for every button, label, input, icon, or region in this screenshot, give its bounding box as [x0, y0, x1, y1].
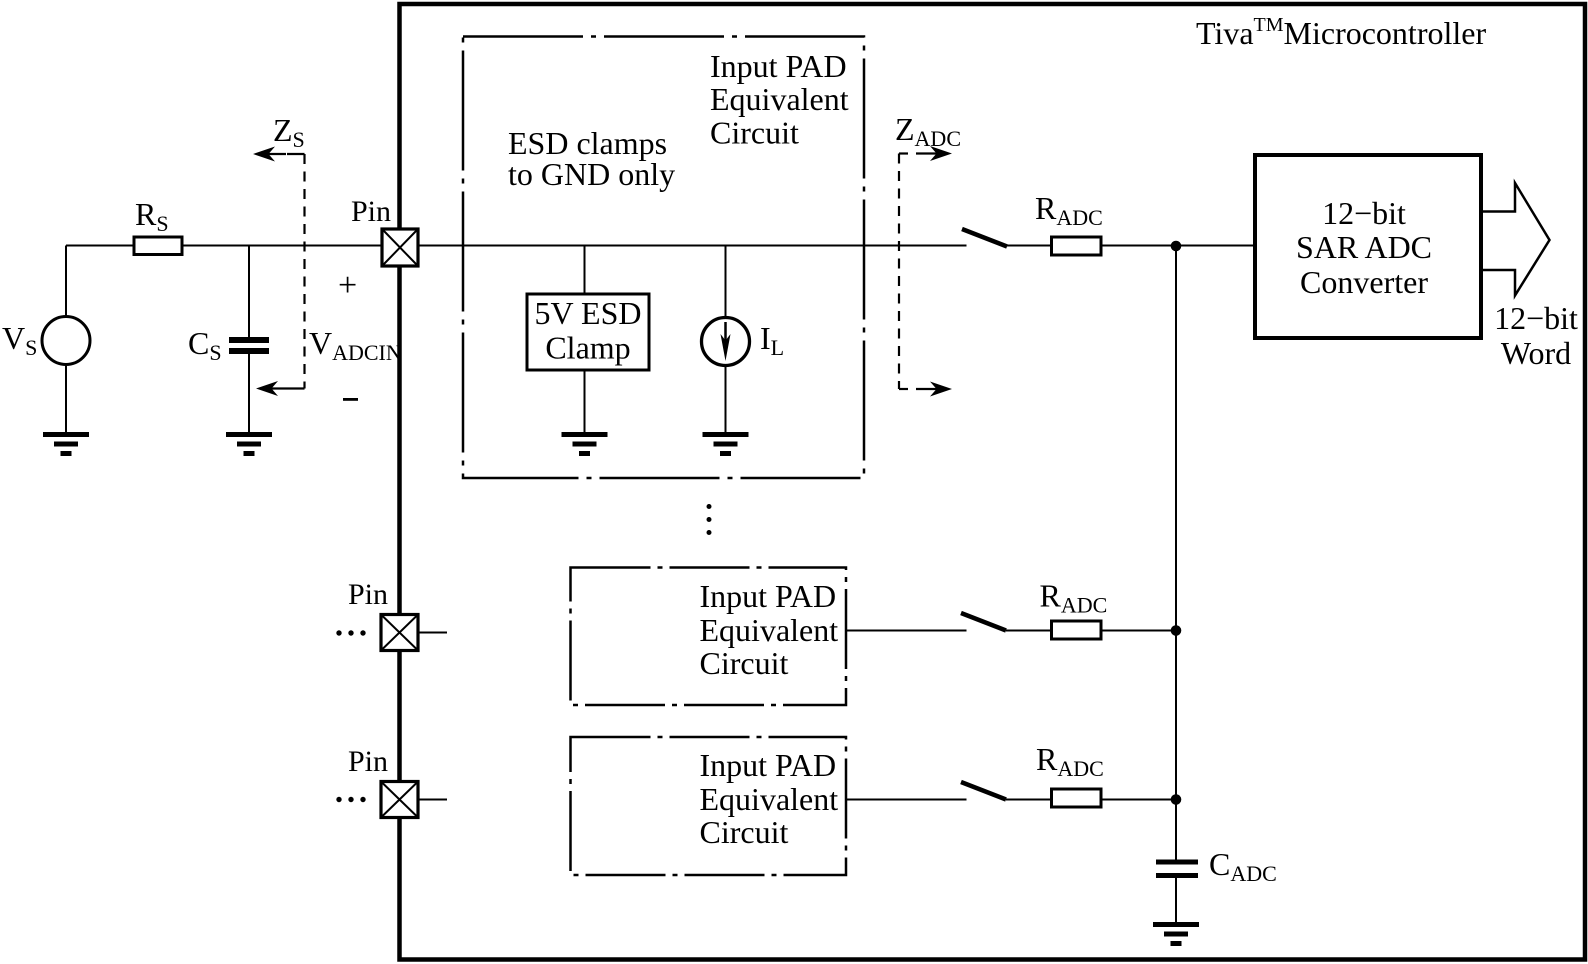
- impedance ZS dashed bracket: [287, 154, 305, 389]
- wire: CADC to ground: [1175, 878, 1177, 923]
- 5V ESD clamp: [527, 294, 649, 370]
- svg-text:12−bitWord: 12−bitWord: [1494, 300, 1578, 371]
- wire: pad 2 to switch S2: [846, 630, 967, 632]
- arrow ZS bottom: [256, 381, 287, 396]
- ground (VS): [43, 432, 89, 456]
- switch S3 blade: [961, 782, 1006, 800]
- svg-text:Pin: Pin: [348, 745, 388, 778]
- wire: current source to ground: [725, 366, 727, 433]
- wire: pin 2 stub: [418, 632, 447, 634]
- switch S1 blade: [962, 229, 1007, 247]
- wire: CS to ground: [248, 354, 250, 433]
- svg-text:+: +: [338, 267, 357, 304]
- node junction 2: [1171, 625, 1182, 636]
- input pad equivalent circuit box 2: [571, 568, 847, 706]
- wire: source network to switch S1: [66, 245, 967, 247]
- pin 3: [381, 782, 418, 818]
- label dots pin 3: [336, 797, 365, 802]
- pin 2: [381, 615, 418, 651]
- ground (CS): [226, 432, 272, 456]
- arrow ZADC top: [916, 146, 952, 161]
- capacitor CS: [229, 337, 269, 354]
- arrow ZS top: [253, 147, 286, 162]
- microcontroller boundary box: [400, 4, 1586, 960]
- resistor RADC 1: [1052, 237, 1102, 255]
- node junction 1: [1171, 241, 1182, 252]
- wire: switch S1 to SAR ADC: [1006, 245, 1255, 247]
- wire: pad to 5V ESD clamp: [584, 246, 586, 295]
- impedance ZADC dashed bracket: [899, 154, 908, 390]
- ground (clamp): [562, 432, 608, 456]
- wire: clamp to ground: [584, 370, 586, 433]
- node junction 3: [1171, 794, 1182, 805]
- input pad equivalent circuit box 1: [463, 37, 864, 479]
- label minus: [343, 398, 358, 401]
- svg-text:5V ESDClamp: 5V ESDClamp: [535, 295, 642, 366]
- wire: VS to ground: [65, 365, 67, 434]
- wire: pad to current source: [725, 246, 727, 319]
- svg-text:Pin: Pin: [351, 195, 391, 228]
- wire: pad 3 to switch S3: [846, 799, 967, 801]
- arrow ZADC bottom: [916, 382, 952, 397]
- svg-text:ESD clampsto GND only: ESD clampsto GND only: [508, 125, 675, 192]
- wire: pin 3 stub: [418, 799, 447, 801]
- pin 1: [382, 229, 418, 266]
- svg-text:TivaTMMicrocontroller: TivaTMMicrocontroller: [1196, 14, 1486, 51]
- svg-text:Pin: Pin: [348, 578, 388, 611]
- ground (CADC): [1153, 922, 1199, 946]
- current source IL: [702, 318, 750, 366]
- vertical ellipsis: [707, 504, 712, 535]
- ground (IL): [703, 432, 749, 456]
- voltage source VS: [42, 317, 90, 365]
- 12-bit SAR ADC converter: [1255, 155, 1481, 338]
- resistor RADC 3: [1052, 789, 1102, 807]
- wire: ADC bus vertical: [1175, 246, 1177, 860]
- wire: switch S3 to node 3: [1006, 799, 1176, 801]
- label dots pin 2: [336, 630, 365, 635]
- resistor RADC 2: [1052, 621, 1102, 639]
- input pad equivalent circuit box 3: [571, 737, 847, 875]
- switch S2 blade: [961, 613, 1006, 631]
- output block arrow: [1483, 183, 1550, 296]
- wire: CS top lead: [248, 246, 250, 338]
- resistor RS: [134, 237, 182, 255]
- capacitor CADC: [1156, 860, 1198, 879]
- wire: switch S2 to node 2: [1006, 630, 1176, 632]
- wire: VS top lead: [65, 246, 67, 317]
